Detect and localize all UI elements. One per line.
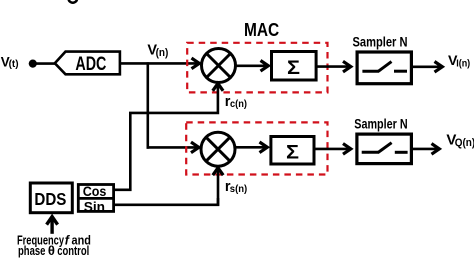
- svg-text:Cos: Cos: [83, 184, 107, 200]
- svg-text:Σ: Σ: [286, 142, 299, 163]
- partial caption letter g (cut off at top edge): [69, 0, 78, 3]
- svg-text:control: control: [57, 244, 89, 258]
- svg-text:Sampler N: Sampler N: [353, 34, 408, 49]
- sampler 1 box: [357, 52, 411, 84]
- multiplier U2 (mixer circle): [201, 132, 235, 166]
- wire rc(n) arrow into multiplier 1: [213, 83, 223, 90]
- wire Cos to multiplier 1 (rc path): [114, 85, 218, 190]
- wire sampler 1 output: [413, 66, 442, 69]
- arrow control into DDS: [50, 217, 53, 234]
- wire ADC to multiplier 1: [121, 62, 199, 65]
- svg-text:Q(n): Q(n): [455, 137, 474, 149]
- DDS block: [30, 183, 72, 213]
- svg-text:Sampler N: Sampler N: [354, 116, 407, 131]
- multiplier U1 (mixer circle): [202, 49, 236, 83]
- Cos Sin outer block: [78, 185, 113, 212]
- divider between Cos and Sin: [77, 197, 115, 200]
- svg-text:Sin: Sin: [84, 199, 105, 215]
- wire sampler 2 output: [413, 148, 439, 151]
- switch symbol 2: [362, 151, 379, 154]
- wire rs(n) arrow into multiplier 2: [217, 169, 220, 206]
- MAC dashed box 1: [187, 43, 327, 93]
- svg-text:MAC: MAC: [244, 19, 279, 40]
- accumulator sigma 1: [272, 52, 317, 81]
- MAC dashed box 2: [186, 122, 327, 174]
- ADC converter block: [55, 52, 120, 75]
- svg-text:DDS: DDS: [34, 189, 66, 209]
- svg-text:(t): (t): [9, 59, 19, 70]
- wire dot to ADC: [37, 62, 57, 65]
- svg-text:phase: phase: [18, 244, 45, 258]
- wire sigma 1 to sampler 1: [318, 65, 351, 68]
- switch symbol 1: [362, 70, 379, 73]
- wire multiplier 2 to sigma 2: [235, 146, 267, 149]
- svg-text:s(n): s(n): [230, 183, 247, 195]
- wire multiplier 1 to sigma 1: [236, 65, 269, 68]
- wire branch to multiplier 2: [147, 146, 198, 149]
- svg-text:Σ: Σ: [287, 58, 300, 79]
- svg-text:(n): (n): [156, 47, 169, 59]
- wire Sin to multiplier 2 (rs path): [114, 198, 218, 205]
- wire sigma 2 to sampler 2: [316, 148, 351, 151]
- svg-text:θ: θ: [48, 243, 55, 258]
- svg-text:c(n): c(n): [230, 98, 247, 110]
- accumulator sigma 2: [271, 137, 314, 165]
- wire branch vertical V(n) down: [147, 62, 150, 149]
- svg-text:ADC: ADC: [75, 54, 106, 75]
- svg-text:I(n): I(n): [456, 58, 470, 69]
- node dot (input terminal): [29, 60, 37, 68]
- sampler 2 box: [357, 134, 412, 164]
